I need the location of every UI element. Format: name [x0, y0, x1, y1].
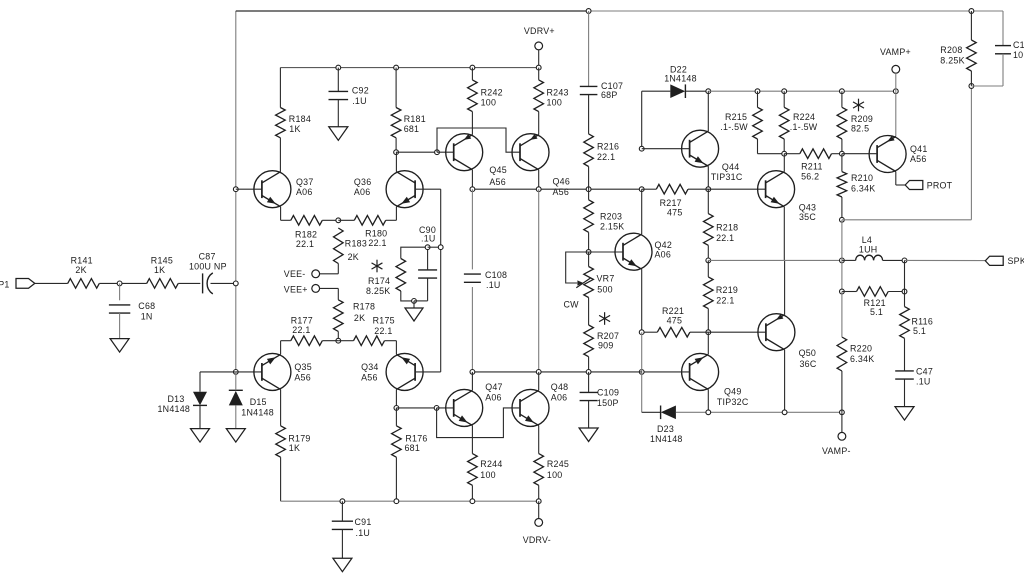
label R217 value — [667, 207, 683, 217]
svg-text:100: 100 — [547, 98, 563, 108]
label R243 — [547, 88, 569, 98]
svg-text:R141: R141 — [71, 256, 93, 266]
label L4 — [862, 235, 872, 245]
resistor R242 — [468, 80, 478, 112]
svg-text:.1U: .1U — [916, 377, 931, 387]
node Q47 collector — [470, 370, 475, 375]
label D23 — [657, 424, 674, 434]
transistor Q41 — [869, 136, 906, 173]
wire — [757, 91, 759, 107]
svg-text:1N: 1N — [141, 311, 153, 321]
node R174/C90 bottom — [412, 299, 417, 304]
wire — [401, 247, 428, 258]
svg-text:1K: 1K — [289, 443, 300, 453]
node C87 junction — [233, 281, 238, 286]
label C68 value — [141, 311, 153, 321]
wire Q46-Q48 link — [538, 189, 540, 372]
ground — [329, 127, 348, 141]
wire Q47 base — [437, 407, 454, 409]
svg-text:VDRV+: VDRV+ — [524, 26, 555, 36]
node L4 out — [902, 258, 907, 263]
svg-text:22.1: 22.1 — [716, 233, 734, 243]
wire Q43 base — [708, 188, 765, 190]
svg-text:C92: C92 — [352, 86, 369, 96]
wire — [338, 219, 354, 221]
svg-text:A56: A56 — [910, 154, 927, 164]
wire Q34 collector — [395, 389, 397, 408]
node R182/R180/R183 — [336, 218, 341, 223]
inductor L4 — [856, 255, 883, 260]
svg-text:909: 909 — [598, 341, 614, 351]
asterisk R209 — [853, 99, 864, 112]
svg-text:475: 475 — [667, 316, 683, 326]
svg-text:100U NP: 100U NP — [189, 262, 227, 272]
label Q42 — [655, 240, 673, 250]
svg-text:8.25K: 8.25K — [366, 286, 390, 296]
svg-text:100: 100 — [547, 470, 563, 480]
wire Q49 base — [642, 371, 690, 373]
resistor R203 — [584, 200, 594, 233]
svg-text:R184: R184 — [289, 114, 311, 124]
wire — [395, 408, 397, 501]
label R145 value — [154, 265, 165, 275]
resistor R207 — [584, 325, 594, 357]
wire Q46 base detour — [437, 128, 520, 152]
wire Q50 collector — [784, 350, 786, 413]
label R215 value — [720, 122, 748, 132]
node R243 top — [536, 65, 541, 70]
wire — [385, 341, 397, 355]
svg-text:A56: A56 — [361, 373, 378, 383]
wire — [200, 372, 236, 392]
wire Q50 emitter — [784, 260, 786, 314]
label Q46 — [553, 176, 571, 186]
svg-text:A06: A06 — [485, 393, 502, 403]
label R174 value — [366, 286, 390, 296]
label CW — [564, 299, 580, 309]
ground — [405, 308, 423, 321]
wire — [707, 332, 709, 354]
node Q42 emitter / R221 — [639, 330, 644, 335]
wire — [386, 207, 397, 221]
label R218 — [716, 223, 738, 233]
label R141 value — [75, 265, 86, 275]
label R244 — [480, 459, 502, 469]
svg-text:.1U: .1U — [352, 96, 367, 106]
wire top bus left — [236, 10, 589, 12]
node Q50 collector — [782, 410, 787, 415]
node Q49 base — [639, 370, 644, 375]
label R178 — [353, 302, 375, 312]
potentiometer VR7 — [566, 252, 594, 298]
svg-text:C68: C68 — [138, 301, 155, 311]
transistor Q45 — [446, 134, 483, 171]
svg-text:1N4148: 1N4148 — [158, 404, 191, 414]
wire — [337, 331, 339, 340]
resistor R116 — [900, 307, 910, 339]
svg-text:22.1: 22.1 — [716, 296, 734, 306]
svg-text:1UH: 1UH — [859, 245, 878, 255]
ground — [895, 407, 914, 421]
label R180 value — [368, 238, 386, 248]
wire — [396, 407, 436, 409]
svg-text:A56: A56 — [489, 177, 506, 187]
resistor R121 — [857, 287, 889, 297]
node Q49 emitter top — [706, 330, 711, 335]
wire Q41 collector — [896, 172, 905, 186]
svg-text:VEE+: VEE+ — [284, 285, 308, 295]
wire — [904, 379, 906, 407]
svg-text:TIP32C: TIP32C — [717, 397, 749, 407]
ground — [333, 558, 352, 572]
svg-text:22.1: 22.1 — [292, 325, 310, 335]
label R179 — [288, 433, 310, 443]
wire — [707, 389, 709, 412]
svg-text:Q44: Q44 — [722, 162, 740, 172]
svg-text:Q45: Q45 — [489, 165, 507, 175]
wire — [99, 282, 146, 284]
resistor R215 — [753, 107, 763, 139]
svg-text:.1U: .1U — [421, 234, 436, 244]
wire — [471, 425, 473, 453]
label R244 value — [480, 470, 496, 480]
svg-text:22.1: 22.1 — [597, 152, 615, 162]
label R245 — [547, 459, 569, 469]
capacitor C47 — [895, 371, 914, 379]
resistor R141 — [68, 279, 100, 289]
wire — [758, 139, 785, 154]
label D22 — [670, 64, 687, 74]
svg-text:56.2: 56.2 — [801, 172, 819, 182]
label R184 — [289, 114, 311, 124]
wire — [685, 90, 708, 92]
label Q42 type — [655, 250, 672, 260]
svg-text:10: 10 — [1013, 50, 1023, 60]
label C1 value — [1013, 50, 1023, 60]
node R181 bottom — [394, 150, 399, 155]
svg-text:22.1: 22.1 — [374, 326, 392, 336]
node R121 left — [840, 289, 845, 294]
transistor Q49 — [682, 353, 719, 390]
node Q34 collector — [394, 406, 399, 411]
label Q45 type — [489, 177, 506, 187]
wire — [970, 11, 972, 86]
wire — [471, 189, 473, 269]
wire — [471, 287, 473, 372]
transistor Q47 — [446, 389, 483, 426]
label R220 — [850, 344, 872, 354]
wire Q42 collector — [641, 189, 643, 234]
svg-text:R203: R203 — [600, 212, 622, 222]
wire — [322, 219, 338, 221]
wire Q37 base — [236, 188, 262, 190]
transistor Q42 — [615, 233, 652, 270]
label Q50 — [799, 348, 817, 358]
wire top bus right — [589, 10, 1003, 12]
svg-text:Q48: Q48 — [551, 382, 569, 392]
svg-text:100: 100 — [481, 98, 497, 108]
resistor R183 — [334, 228, 344, 264]
label C107 value — [601, 90, 618, 100]
capacitor C108 — [464, 274, 481, 282]
label R224 value — [790, 122, 818, 132]
label R209 value — [851, 124, 869, 134]
wire — [279, 138, 281, 172]
capacitor C90 — [418, 270, 437, 278]
label Q43 type — [799, 212, 816, 222]
resistor R175 — [354, 336, 385, 346]
resistor R224 — [779, 107, 789, 139]
svg-text:.1-.5W: .1-.5W — [790, 122, 818, 132]
label R141 — [71, 256, 93, 266]
resistor R243 — [534, 80, 544, 112]
wire — [471, 170, 473, 190]
wire VDRV+ bus — [280, 67, 538, 69]
transistor Q44 — [682, 130, 719, 167]
node Q42 collector — [639, 187, 644, 192]
label R208 — [940, 45, 962, 55]
flag SPK — [985, 256, 1024, 266]
resistor R221 — [657, 327, 690, 337]
node Q46 collector — [536, 187, 541, 192]
resistor R179 — [276, 426, 286, 457]
node C90 top — [425, 245, 430, 250]
wire — [395, 68, 397, 108]
label Q34 type — [361, 373, 378, 383]
wire — [338, 340, 353, 342]
wire Q34 base — [415, 247, 441, 372]
node Q35 base / diodes — [233, 370, 238, 375]
label C108 value — [486, 280, 501, 290]
diode D22 — [670, 84, 685, 98]
asterisk R207 — [599, 312, 610, 325]
svg-text:R176: R176 — [405, 433, 427, 443]
svg-text:22.1: 22.1 — [296, 239, 314, 249]
svg-text:5.1: 5.1 — [870, 307, 883, 317]
svg-text:R177: R177 — [291, 315, 313, 325]
ground — [226, 429, 245, 443]
wire — [841, 292, 843, 413]
svg-text:R224: R224 — [793, 112, 815, 122]
resistor R209 — [837, 107, 847, 139]
terminal VEE- — [284, 269, 320, 279]
label C87 value — [189, 262, 227, 272]
wire — [341, 501, 343, 558]
terminal VAMP+ — [880, 47, 911, 73]
wire — [905, 259, 986, 261]
wire — [471, 485, 473, 501]
wire feedback run — [842, 86, 972, 220]
wire — [538, 485, 540, 501]
wire — [119, 313, 121, 339]
node R220 bottom — [840, 410, 845, 415]
svg-text:Q37: Q37 — [296, 177, 314, 187]
node Q44 collector — [706, 89, 711, 94]
wire — [642, 188, 657, 190]
node C107 top — [586, 9, 591, 14]
label R145 — [151, 256, 173, 266]
wire lower bus — [472, 371, 641, 373]
label R242 — [481, 88, 503, 98]
svg-text:R174: R174 — [368, 276, 390, 286]
svg-text:A06: A06 — [655, 250, 672, 260]
svg-text:Q50: Q50 — [799, 348, 817, 358]
label Q34 — [361, 362, 379, 372]
diode D13 — [193, 392, 207, 406]
label C109 value — [597, 398, 619, 408]
label D13 — [168, 394, 185, 404]
label R216 — [597, 142, 619, 152]
label D15 — [250, 397, 267, 407]
svg-text:A06: A06 — [296, 187, 313, 197]
svg-text:VAMP+: VAMP+ — [880, 47, 911, 57]
node Q45 collector — [470, 187, 475, 192]
svg-text:Q46: Q46 — [553, 176, 571, 186]
wire Q36 collector — [395, 152, 397, 172]
label R121 value — [870, 307, 883, 317]
label C47 value — [916, 377, 931, 387]
wire — [322, 340, 338, 342]
label R176 — [405, 433, 427, 443]
wire — [588, 252, 590, 267]
svg-text:681: 681 — [404, 124, 420, 134]
svg-text:6.34K: 6.34K — [851, 184, 875, 194]
node input/C68 — [117, 281, 122, 286]
label C92 value — [352, 96, 367, 106]
label R182 — [295, 230, 317, 240]
label R211 value — [801, 172, 819, 182]
wire R181 node to Q45 base — [396, 151, 437, 153]
svg-text:2K: 2K — [348, 252, 359, 262]
svg-text:475: 475 — [667, 207, 683, 217]
svg-text:R216: R216 — [597, 142, 619, 152]
svg-text:681: 681 — [405, 443, 421, 453]
svg-text:R219: R219 — [716, 285, 738, 295]
label C68 — [138, 301, 155, 311]
label D23 value — [650, 434, 683, 444]
wire — [841, 260, 843, 291]
label R221 — [662, 306, 684, 316]
svg-text:A56: A56 — [553, 187, 570, 197]
node R245 bottom / VDRV- — [536, 499, 541, 504]
svg-text:1K: 1K — [289, 124, 300, 134]
label R220 value — [850, 354, 874, 364]
svg-text:L4: L4 — [862, 235, 872, 245]
svg-text:5.1: 5.1 — [913, 326, 926, 336]
ground — [110, 339, 129, 353]
label Q43 — [799, 203, 817, 213]
label C107 — [601, 81, 623, 91]
node C92 top — [336, 65, 341, 70]
resistor R217 — [656, 184, 688, 194]
label Q48 — [551, 382, 569, 392]
wire bottom bus — [281, 500, 539, 502]
svg-text:82.5: 82.5 — [851, 124, 869, 134]
svg-text:.1U: .1U — [356, 528, 371, 538]
label C90 value — [421, 234, 436, 244]
label R174 — [368, 276, 390, 286]
svg-text:68P: 68P — [601, 90, 618, 100]
wire — [35, 282, 68, 284]
svg-text:.1-.5W: .1-.5W — [720, 122, 748, 132]
label R179 value — [289, 443, 300, 453]
wire — [904, 292, 906, 371]
wire — [178, 282, 200, 284]
svg-text:6.34K: 6.34K — [850, 354, 874, 364]
label R183 — [345, 239, 367, 249]
node R224 bottom — [782, 151, 787, 156]
transistor Q34 — [386, 353, 423, 390]
wire — [235, 372, 237, 429]
label R180 — [365, 229, 387, 239]
label R208 value — [940, 55, 964, 65]
ground — [191, 429, 210, 443]
node R224 top — [782, 89, 787, 94]
transistor Q50 — [758, 314, 795, 351]
svg-text:C108: C108 — [485, 270, 507, 280]
wire — [707, 91, 709, 131]
terminal VAMP- — [822, 432, 851, 456]
svg-text:Q36: Q36 — [354, 177, 372, 187]
transistor Q48 — [512, 389, 549, 426]
wire — [707, 166, 709, 189]
wire — [842, 259, 856, 261]
node feedback to bases — [438, 245, 443, 250]
label C108 — [485, 270, 507, 280]
resistor R208 — [967, 40, 977, 71]
resistor R218 — [704, 214, 714, 246]
svg-text:R244: R244 — [480, 459, 502, 469]
wire — [841, 91, 843, 154]
label Q48 type — [551, 393, 568, 403]
node C91 top — [340, 499, 345, 504]
resistor R176 — [392, 426, 402, 457]
resistor R178 — [334, 300, 344, 332]
node R209/R210/R211 — [840, 151, 845, 156]
node SPK bus / R210 line — [840, 258, 845, 263]
svg-text:A56: A56 — [294, 373, 311, 383]
label C47 — [916, 367, 933, 377]
label R178 value — [354, 313, 365, 323]
wire — [841, 412, 843, 432]
capacitor C1 — [995, 46, 1011, 54]
resistor R182 — [291, 216, 323, 226]
label R183 value — [348, 252, 359, 262]
wire — [588, 298, 590, 372]
label R219 — [716, 285, 738, 295]
wire — [642, 90, 671, 92]
transistor Q46 — [512, 134, 549, 171]
wire — [842, 291, 905, 293]
wire — [337, 68, 339, 92]
wire Q45 base — [437, 151, 454, 153]
svg-text:1N4148: 1N4148 — [650, 434, 683, 444]
node Q44 emitter — [706, 187, 711, 192]
wire — [707, 189, 709, 260]
resistor R174 — [396, 259, 406, 292]
resistor R216 — [584, 134, 594, 167]
wire bias bus — [708, 90, 896, 92]
capacitor C91 — [332, 521, 353, 529]
svg-text:R175: R175 — [373, 315, 395, 325]
label C92 — [352, 86, 369, 96]
wire Q48 base detour — [437, 408, 520, 438]
svg-text:R116: R116 — [912, 317, 934, 327]
svg-text:R180: R180 — [365, 229, 387, 239]
flag PROT — [905, 180, 952, 190]
node R208 top — [969, 9, 974, 14]
label Q46 type — [553, 187, 570, 197]
